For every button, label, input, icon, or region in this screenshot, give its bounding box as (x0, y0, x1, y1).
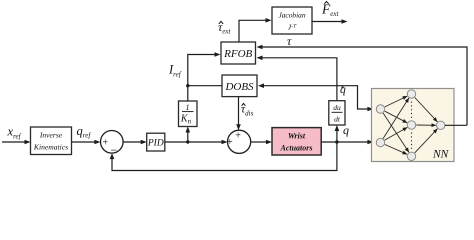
block: RFOB (221, 42, 256, 64)
wire: tau_ext_hat from RFOB to Jacobian (239, 20, 266, 42)
wire: q branch up into du/dt (336, 130, 338, 143)
svg-text:Inverse: Inverse (39, 131, 63, 140)
NN input node 1 (376, 105, 384, 113)
svg-text:PID: PID (147, 138, 164, 148)
wire: I_ref branch to DOBS (188, 85, 222, 87)
svg-text:+: + (227, 137, 233, 148)
svg-text:Jacobian: Jacobian (278, 11, 305, 20)
wire: q_dot vertical from du/dt up, corner to RFOB (262, 58, 337, 101)
NN hidden node 1 (407, 90, 415, 98)
NN hidden node 3 (407, 152, 415, 160)
svg-text:RFOB: RFOB (223, 48, 252, 60)
svg-text:1: 1 (186, 103, 190, 112)
junction dot on I_ref line at DOBS branch (186, 84, 189, 87)
wire: x_ref input (2, 141, 25, 143)
wire: I_ref from 1/Kn up to RFOB (188, 55, 215, 102)
wire: q_dot branch to DOBS (263, 85, 337, 87)
svg-text:Kinematics: Kinematics (33, 143, 68, 152)
svg-text:NN: NN (432, 149, 450, 161)
svg-text:q: q (343, 123, 349, 137)
wire: NN edges input layer to hidden layer (383, 96, 409, 154)
block: Wrist Actuators (272, 128, 321, 155)
svg-text:τ: τ (287, 34, 292, 48)
svg-text:Actuators: Actuators (279, 144, 312, 153)
wire: branch up to 1/Kn (187, 131, 189, 142)
wire: tau from NN output up and to RFOB (262, 47, 467, 125)
wire: S2 to Wrist Actuators (251, 141, 267, 143)
svg-text:q: q (340, 84, 346, 96)
junction dot on q line (335, 140, 338, 143)
block: du/dt (329, 101, 345, 125)
NN input node 2 (376, 138, 384, 146)
wire: S1 to PID (123, 141, 141, 143)
svg-text:du: du (333, 103, 341, 112)
wire: F_ext_hat output (312, 21, 342, 23)
NN output node (437, 121, 445, 129)
svg-text:Wrist: Wrist (288, 132, 306, 141)
block: 1/Kn gain (179, 101, 198, 127)
wire: q_dot branch to NN input 1 (337, 86, 368, 109)
block: Jacobian J^-T (272, 7, 312, 34)
wire: NN edges hidden layer to output (415, 98, 438, 153)
summing junction S2 (228, 130, 251, 153)
svg-text:+: + (235, 130, 241, 141)
block: Inverse Kinematics (31, 127, 72, 155)
junction dot at PID output branch (186, 140, 189, 143)
wire: q feedback to S1 (112, 142, 337, 171)
block: PID (147, 133, 165, 151)
NN hidden layer ellipsis dots (411, 102, 413, 119)
wire: tau_dis_hat from DOBS down to S2 (238, 97, 240, 126)
wire: q output from Wrist Actuators to NN input 2 (321, 141, 368, 143)
summing junction S1 (101, 131, 124, 154)
wire: q_ref (IK to summing junction 1) (72, 141, 96, 143)
svg-text:+: + (103, 138, 109, 149)
wire: PID to summing junction S2 (165, 141, 222, 143)
wire: NN output to tau line (445, 124, 467, 126)
svg-text:DOBS: DOBS (224, 81, 254, 93)
block: NN box (372, 89, 455, 162)
block: DOBS (222, 75, 257, 97)
svg-text:dt: dt (334, 115, 341, 124)
NN hidden node 2 (407, 121, 415, 129)
